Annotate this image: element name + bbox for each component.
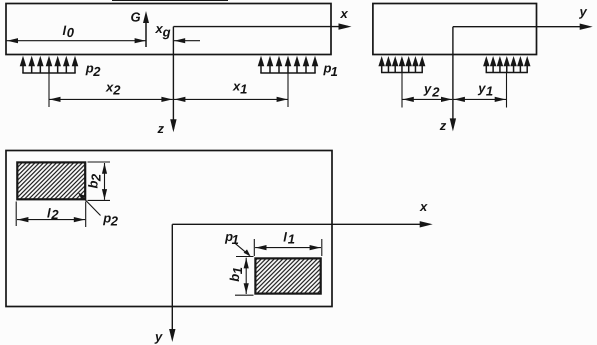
y axis [453, 26, 589, 28]
extension line y2 [401, 73, 403, 108]
extension lines l1 [253, 239, 255, 256]
z axis (end view) [452, 27, 454, 128]
svg-text:2: 2 [92, 64, 101, 79]
beam outline (end view, y-z plane) [373, 4, 537, 55]
svg-text:y: y [154, 329, 163, 344]
svg-text:l: l [283, 230, 287, 245]
extension lines b2 [88, 161, 111, 163]
loaded area 2 (hatched rectangle, plan) [17, 162, 85, 199]
svg-text:l: l [47, 205, 51, 220]
loaded area 1 (hatched rectangle, plan) [255, 258, 320, 293]
svg-text:x: x [340, 6, 349, 21]
svg-text:2: 2 [431, 85, 440, 100]
dimension x2 line [49, 98, 173, 100]
leader line p2 (plan) [79, 194, 100, 216]
svg-text:2: 2 [50, 207, 59, 222]
dimension b2 line [104, 163, 106, 200]
extension lines l2 [15, 202, 17, 227]
foundation outline (plan view) [6, 151, 332, 307]
x axis (plan) [172, 223, 429, 225]
extension line y1 [506, 73, 508, 108]
svg-text:z: z [439, 118, 447, 133]
dimension y1 line [454, 98, 507, 100]
dimension l1 line [255, 247, 321, 249]
dimension b1 line [245, 258, 247, 294]
dimension xg outside arrow [174, 40, 200, 42]
svg-text:0: 0 [67, 25, 75, 40]
label b2 (rotated) [85, 173, 103, 188]
extension line x1 [287, 73, 289, 107]
force G arrow [145, 16, 147, 47]
svg-text:y: y [579, 4, 588, 19]
distributed load p1 (side view) [260, 60, 262, 73]
leader line p1 (plan) [236, 244, 250, 256]
distributed load p2 (side view) [22, 60, 24, 73]
distributed load right (end view) [485, 60, 487, 73]
label b1 (rotated) [227, 267, 245, 282]
scan artifact line (top edge) [112, 0, 228, 2]
extension lines b1 [236, 256, 254, 258]
svg-text:y: y [423, 81, 432, 96]
z axis [172, 27, 174, 129]
svg-text:1: 1 [288, 231, 295, 246]
svg-text:2: 2 [110, 214, 119, 229]
beam outline (side view, x-z plane) [6, 4, 331, 55]
dimension l2 line [17, 219, 85, 221]
dimension x1 line [174, 98, 288, 100]
svg-text:1: 1 [240, 82, 247, 97]
svg-text:z: z [157, 121, 165, 136]
dimension y2 line [402, 98, 452, 100]
svg-text:2: 2 [89, 173, 104, 182]
extension line x2 [48, 73, 50, 107]
svg-text:G: G [131, 10, 141, 25]
y axis (plan) [171, 224, 173, 338]
svg-text:1: 1 [232, 232, 239, 247]
svg-text:y: y [477, 81, 486, 96]
svg-text:g: g [162, 25, 171, 40]
svg-text:x: x [419, 199, 428, 214]
distributed load left (end view) [381, 60, 383, 73]
svg-text:1: 1 [486, 84, 493, 99]
dimension l0 line [7, 40, 147, 42]
svg-text:1: 1 [230, 267, 245, 274]
svg-text:1: 1 [331, 64, 338, 79]
x axis [173, 26, 348, 28]
svg-text:2: 2 [112, 83, 121, 98]
